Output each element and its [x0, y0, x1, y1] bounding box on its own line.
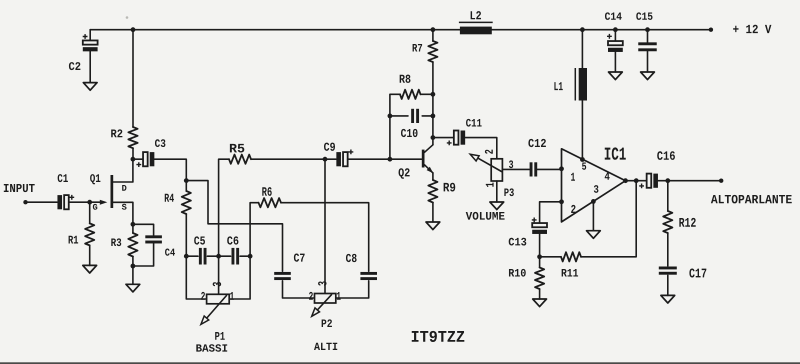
wire C2 to ground	[89, 51, 91, 82]
label R6	[262, 187, 271, 196]
wire pin2 to C13	[540, 202, 562, 223]
node pin3	[591, 199, 596, 204]
label D	[122, 185, 126, 191]
capacitor C1	[64, 195, 69, 209]
label pin 4	[605, 172, 610, 179]
wire R12 to C17	[667, 233, 669, 266]
label pin 5	[582, 163, 586, 170]
potentiometer P1 body	[207, 294, 230, 304]
label P1	[215, 332, 225, 340]
label P3 pin2	[485, 150, 493, 154]
label pin 1	[571, 173, 575, 181]
label L2	[471, 11, 481, 19]
potentiometer P2 wiper arrow	[316, 295, 332, 312]
node C10-collector	[431, 114, 436, 119]
wire C2 to rail	[89, 30, 91, 41]
transistor Q1 body	[111, 175, 114, 208]
node rail-C15	[645, 27, 650, 32]
wire R1 to ground	[89, 245, 91, 265]
label P3 pin3	[509, 160, 513, 168]
resistor R8	[400, 90, 421, 99]
label R12	[679, 218, 695, 227]
label C11	[466, 119, 482, 127]
label Q2	[399, 168, 410, 179]
transistor Q2 collector lead	[425, 145, 433, 153]
ground R3	[126, 284, 140, 292]
node IC1 output	[623, 178, 628, 183]
wire +12V rail	[90, 29, 711, 31]
node A	[184, 178, 189, 183]
label P2 pin3	[318, 281, 326, 285]
wire bass-right to R6	[250, 203, 258, 257]
resistor R10	[539, 257, 541, 268]
resistor R6	[259, 198, 282, 207]
capacitor C13	[532, 223, 547, 227]
label C8	[346, 254, 357, 262]
ground IC1 pin3	[587, 231, 601, 239]
label C13	[509, 238, 527, 246]
terminal ALTOPARLANTE	[719, 179, 723, 183]
wire R10 to ground	[539, 289, 541, 299]
label C7	[294, 253, 305, 261]
node C10-left	[388, 114, 393, 119]
scan speck	[126, 16, 129, 19]
capacitor C5	[199, 248, 202, 265]
label R10	[509, 269, 526, 277]
wire C16 to speaker node	[658, 180, 721, 182]
potentiometer P3 body	[491, 159, 502, 181]
label P1 pin2	[201, 292, 205, 300]
node rail-R2	[131, 27, 136, 32]
ground C2	[83, 83, 97, 91]
node speaker	[665, 178, 670, 183]
wire R3 to bottom node	[132, 257, 134, 267]
label P1 pin3	[213, 282, 221, 286]
inductor L1	[579, 68, 587, 101]
node drain-R2-C3	[131, 157, 136, 162]
wire output to C16	[626, 180, 647, 182]
wire C14 to ground	[614, 52, 616, 72]
label IC1	[605, 147, 626, 159]
capacitor C10	[411, 109, 414, 123]
label P3 pin1	[486, 183, 494, 187]
node rail-C14	[613, 27, 618, 32]
wire C9 to base node	[348, 158, 390, 160]
label R11	[562, 269, 578, 277]
ground C15	[641, 72, 655, 80]
label C10	[401, 129, 418, 137]
resistor R2	[128, 127, 137, 148]
node source-R3-C4	[131, 222, 136, 227]
label G	[93, 204, 97, 210]
label S	[122, 204, 127, 210]
node Q2 base	[388, 157, 393, 162]
wire bass-left to P1 pin2	[186, 256, 206, 299]
wire C11 to P3	[465, 138, 497, 159]
label pin 2	[571, 205, 575, 213]
label R3	[111, 238, 121, 246]
wire C6 to bass-right	[240, 255, 250, 257]
wire speaker node to R12	[667, 181, 669, 211]
wire bass-right to P1 pin1	[229, 256, 250, 299]
terminal +12V	[709, 28, 713, 32]
terminal INPUT	[23, 200, 27, 204]
wire R8 to collector line	[421, 93, 433, 95]
op-amp IC1 triangle	[562, 149, 626, 222]
node rail-L1	[580, 27, 585, 32]
wire rail to C14	[614, 30, 616, 42]
label R9	[444, 183, 456, 192]
wire C4 top	[133, 224, 154, 235]
wire L1 to pin5	[581, 101, 583, 160]
wire node B to P2 pin3	[324, 159, 326, 293]
wire C13 to fb node	[539, 234, 541, 257]
capacitor C6	[232, 248, 235, 265]
transistor Q2 emitter lead	[425, 165, 433, 173]
node bass-wiper	[216, 254, 221, 259]
wire C3 to node A	[154, 159, 186, 180]
label C12	[528, 139, 545, 147]
wire R9 to ground	[432, 203, 434, 223]
label BASSI	[196, 344, 227, 351]
resistor R7	[428, 41, 437, 62]
label pin 3	[594, 185, 599, 193]
label R7	[413, 44, 423, 52]
wire bass-left to C5	[186, 255, 198, 257]
node bass-left	[184, 254, 189, 259]
potentiometer P3 wiper arrow	[477, 157, 502, 171]
wire bass wiper to R5	[219, 159, 229, 256]
label L1	[554, 82, 562, 90]
node gate	[87, 200, 92, 205]
label C14	[605, 12, 622, 20]
wire base node to Q2	[390, 158, 422, 160]
capacitor C17	[659, 267, 677, 270]
label IT9TZZ	[412, 331, 465, 342]
node B	[323, 157, 328, 162]
resistor R3	[132, 224, 134, 233]
inductor L2	[460, 27, 492, 35]
bottom border line	[0, 362, 800, 364]
label VOLUME	[466, 212, 505, 220]
wire C12 to pin1	[537, 168, 561, 170]
label R4	[165, 194, 174, 202]
resistor R11	[561, 252, 581, 261]
label C17	[689, 268, 706, 277]
wire node to C3	[133, 158, 143, 160]
capacitor C9	[325, 158, 336, 160]
wire input to C1	[26, 201, 58, 203]
label R5	[230, 144, 244, 153]
resistor R12	[663, 211, 672, 233]
wire base node up to R8	[390, 94, 400, 159]
potentiometer P2 body	[315, 294, 336, 304]
capacitor C3	[143, 152, 148, 166]
capacitor C11	[454, 131, 459, 145]
wire C5 to wiper node	[207, 255, 218, 257]
ground R9	[426, 222, 440, 230]
wire R4 to bass node	[185, 214, 187, 256]
wire C4 bottom	[133, 244, 154, 267]
label Q1	[90, 174, 100, 184]
label P2 pin1	[337, 292, 341, 300]
ground C14	[609, 72, 623, 80]
label C2	[69, 62, 80, 70]
label +12V	[733, 25, 771, 33]
label P3	[504, 188, 513, 196]
wire P3 to ground	[496, 181, 498, 202]
wire collector to C11	[433, 137, 454, 139]
wire pin3 to ground	[592, 201, 594, 230]
node bass-right	[248, 254, 253, 259]
resistor R4	[185, 181, 187, 191]
wire wiper to P1 pin3	[218, 256, 220, 294]
wire R2 to node	[132, 148, 134, 159]
wire to ground R3	[132, 266, 134, 284]
label P2	[322, 319, 332, 327]
node pin1	[559, 166, 564, 171]
wire rail to R2	[132, 30, 134, 127]
resistor R9	[428, 180, 437, 203]
wire to C10	[390, 115, 408, 117]
label P1 pin1	[230, 292, 234, 300]
label C9	[324, 143, 335, 151]
wire wiper node to C6	[219, 255, 231, 257]
potentiometer P1 wiper arrow	[206, 296, 227, 320]
capacitor C12	[530, 162, 533, 176]
ground P3	[490, 202, 504, 210]
node pin5	[580, 157, 585, 162]
ground R1	[83, 265, 97, 273]
wire C15 to ground	[647, 51, 649, 72]
label P2 pin2	[309, 292, 313, 300]
transistor Q1 source lead	[113, 202, 133, 224]
node collector-C11	[431, 135, 436, 140]
wire node to R1	[89, 202, 91, 223]
node R8-collector	[431, 92, 436, 97]
ground C17	[661, 295, 675, 303]
label ALTOPARLANTE	[711, 195, 792, 204]
label C5	[194, 236, 205, 244]
label INPUT	[4, 184, 35, 192]
label C3	[155, 139, 165, 147]
label C1	[58, 174, 68, 182]
node feedback	[537, 254, 542, 259]
capacitor C4	[145, 235, 162, 238]
wire Q2 emitter to R9	[432, 173, 434, 180]
node rail-R7	[431, 27, 436, 32]
node R3-C4 bottom	[131, 264, 136, 269]
wire rail to C15	[647, 30, 649, 43]
wire R11 to output node	[581, 181, 636, 257]
capacitor C2	[83, 40, 98, 44]
wire C8 to P2 pin1	[336, 281, 369, 298]
capacitor C15	[638, 42, 657, 45]
resistor R5	[229, 155, 251, 164]
capacitor C16	[647, 174, 652, 188]
resistor R1	[85, 223, 94, 245]
label R2	[111, 129, 122, 137]
label C4	[165, 248, 175, 255]
wire C17 to ground	[667, 275, 669, 295]
transistor Q2 body	[422, 150, 425, 168]
capacitor C14	[608, 41, 623, 45]
wire C10 to collector line	[422, 115, 433, 117]
label C16	[657, 151, 675, 160]
transistor Q1 drain lead	[113, 159, 133, 182]
wire P3 wiper to C12	[502, 168, 529, 170]
ground R10	[533, 299, 547, 307]
capacitor C8	[360, 272, 377, 275]
label C6	[227, 236, 238, 244]
wire fb node to R11	[540, 256, 561, 258]
wire R6 to C8	[281, 203, 369, 272]
wire rail to L1	[581, 30, 583, 68]
transistor Q1 gate arrow	[90, 201, 101, 203]
wire R5 to node B	[251, 158, 325, 160]
wire C7 to P2 pin2	[283, 281, 315, 298]
node output-fb	[634, 178, 639, 183]
wire C1 to gate node	[69, 201, 90, 203]
label C15	[636, 12, 652, 20]
capacitor C7	[274, 272, 291, 275]
label ALTI	[314, 343, 337, 350]
node pin2	[559, 199, 564, 204]
wire rail to R7	[432, 30, 434, 41]
label R1	[69, 236, 79, 244]
wire R7 to R8 node	[432, 62, 434, 145]
wire node A to C7	[186, 181, 282, 272]
label R8	[400, 75, 411, 83]
